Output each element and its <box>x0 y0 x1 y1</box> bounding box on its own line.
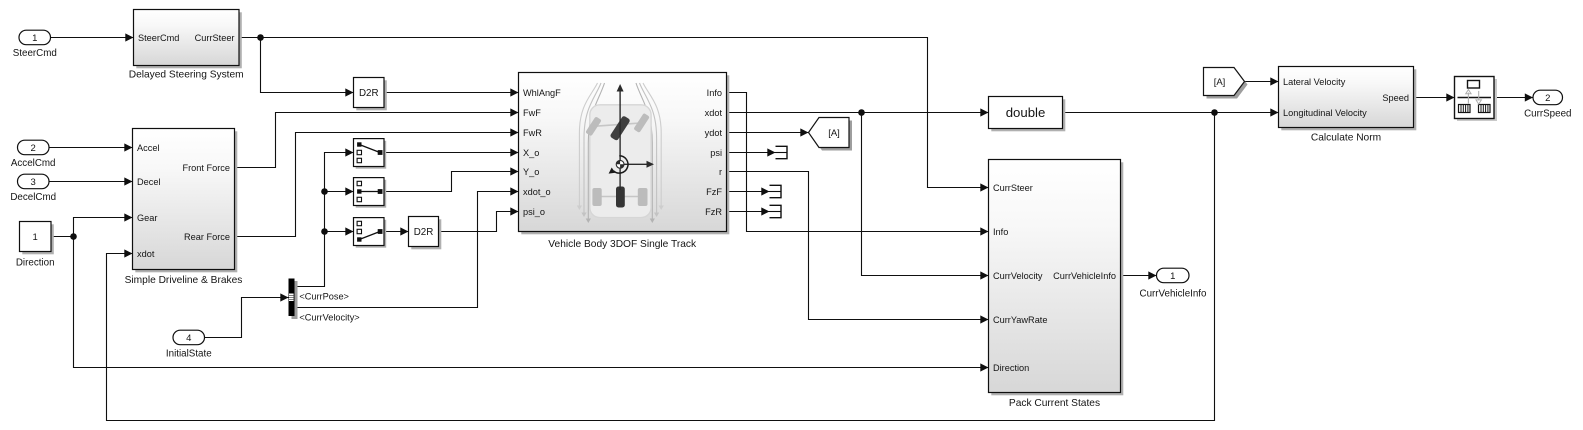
rate transition up arrow <box>1467 93 1469 104</box>
rate transition output register icon <box>1479 105 1491 113</box>
vehicle icon front left wheel <box>585 116 601 136</box>
svg-text:1: 1 <box>1170 271 1175 282</box>
svg-text:psi: psi <box>710 148 722 158</box>
wire Rate Transition to CurrSpeed outport <box>1494 97 1533 99</box>
svg-text:FwR: FwR <box>523 128 542 138</box>
wire D2R1 to WhlAngF <box>384 92 519 94</box>
svg-text:3: 3 <box>31 177 36 188</box>
wire double to Longitudinal Velocity <box>1063 112 1279 114</box>
constant block Direction value 1 <box>22 224 54 254</box>
svg-text:r: r <box>719 167 722 177</box>
wire Front Force to FwF <box>235 113 519 168</box>
terminator psi <box>776 146 788 158</box>
subsystem Simple Driveline & Brakes <box>135 131 237 272</box>
bus selector CurrPose CurrVelocity <box>292 281 298 319</box>
terminator FzF <box>770 185 782 197</box>
terminator FzR <box>770 205 782 217</box>
subsystem Calculate Norm <box>1281 69 1416 130</box>
junction double output to feedback <box>1211 109 1218 116</box>
junction CurrSteer branch <box>257 34 264 41</box>
junction xdot branch <box>858 109 865 116</box>
wire AccelCmd to Accel <box>49 147 133 149</box>
vehicle icon rear axle <box>595 196 645 198</box>
svg-text:AccelCmd: AccelCmd <box>11 158 56 169</box>
junction CurrPose to switch3 <box>321 228 328 235</box>
svg-text:FzF: FzF <box>706 187 722 197</box>
inport 3 DecelCmd <box>18 174 50 189</box>
svg-text:D2R: D2R <box>414 227 434 238</box>
svg-text:Longitudinal Velocity: Longitudinal Velocity <box>1283 108 1367 118</box>
rate transition down arrow <box>1478 91 1480 101</box>
wire DecelCmd to Decel <box>49 181 133 183</box>
wire SteerCmd to Delayed Steering System <box>51 37 134 39</box>
data type conversion double <box>991 99 1065 131</box>
svg-text:CurrVehicleInfo: CurrVehicleInfo <box>1140 289 1208 300</box>
svg-text:double: double <box>1006 105 1046 120</box>
wire xdot branch to Pack CurrVelocity <box>862 113 989 276</box>
svg-text:Info: Info <box>993 227 1008 237</box>
svg-text:4: 4 <box>186 333 191 344</box>
wire Manual Switch 3 to D2R2 <box>384 231 409 233</box>
wire CurrSteer branch to D2R1 <box>261 38 354 93</box>
goto tag A <box>812 121 853 151</box>
svg-text:Accel: Accel <box>137 143 159 153</box>
vehicle icon rear right wheel <box>638 188 648 206</box>
svg-text:InitialState: InitialState <box>166 349 212 360</box>
manual switch 3 psi_o <box>356 220 387 248</box>
svg-text:[A]: [A] <box>1214 77 1226 88</box>
svg-text:Pack Current States: Pack Current States <box>1009 398 1100 409</box>
svg-text:psi_o: psi_o <box>523 207 545 217</box>
vehicle icon front right wheel <box>633 113 649 133</box>
wire CurrPose to Manual Switch 2 <box>325 191 354 193</box>
svg-text:1: 1 <box>32 33 37 44</box>
vehicle icon yaw rotation arc <box>613 156 628 173</box>
wire From A to Lateral Velocity <box>1245 81 1279 83</box>
svg-text:<CurrPose>: <CurrPose> <box>299 292 349 302</box>
wire Direction to Gear <box>74 218 133 237</box>
svg-text:Delayed Steering System: Delayed Steering System <box>129 69 244 80</box>
vehicle body icon streamlines <box>579 83 597 206</box>
wire xdot feedback to Simple Driveline xdot <box>107 113 1215 421</box>
vehicle icon front center wheel steered <box>610 115 631 141</box>
junction Direction <box>70 233 77 240</box>
wire FzF to terminator <box>727 191 770 193</box>
vehicle body icon car outline <box>590 105 651 218</box>
inport 4 InitialState <box>173 330 205 345</box>
svg-text:CurrSteer: CurrSteer <box>993 183 1033 193</box>
gain block D2R2 degrees to radians <box>411 219 441 249</box>
gain block D2R1 degrees to radians <box>356 80 387 110</box>
svg-text:Gear: Gear <box>137 213 157 223</box>
svg-text:xdot: xdot <box>705 108 723 118</box>
wire CurrPose to Manual Switch 3 <box>325 231 354 233</box>
svg-text:D2R: D2R <box>359 88 379 99</box>
wire CurrSteer from Delayed Steering System to Pack Current States <box>239 38 989 188</box>
subsystem Pack Current States <box>991 162 1123 395</box>
svg-text:Lateral Velocity: Lateral Velocity <box>1283 77 1346 87</box>
svg-text:Simple Driveline & Brakes: Simple Driveline & Brakes <box>125 275 243 286</box>
wire CurrVehicleInfo to outport <box>1121 275 1157 277</box>
wire ydot to Goto A <box>727 132 809 134</box>
subsystem Delayed Steering System <box>136 12 242 68</box>
svg-text:[A]: [A] <box>828 128 840 139</box>
svg-text:Calculate Norm: Calculate Norm <box>1311 133 1381 144</box>
wire Direction constant output <box>51 236 74 238</box>
vehicle icon lateral axis arrow <box>620 163 648 165</box>
svg-text:Front Force: Front Force <box>183 163 230 173</box>
wire CurrPose to Manual Switch 1 <box>295 153 354 287</box>
svg-text:SteerCmd: SteerCmd <box>13 48 57 59</box>
wire InitialState to Bus Selector <box>205 298 289 338</box>
wire Manual Switch 1 to X_o <box>384 152 519 154</box>
svg-text:DecelCmd: DecelCmd <box>10 192 56 203</box>
svg-text:ydot: ydot <box>705 128 723 138</box>
wire Manual Switch 2 to Y_o <box>384 172 519 192</box>
wire psi to terminator <box>727 152 776 154</box>
manual switch 2 Y_o <box>356 180 387 208</box>
svg-text:Vehicle Body 3DOF Single Track: Vehicle Body 3DOF Single Track <box>548 239 697 250</box>
svg-text:CurrVelocity: CurrVelocity <box>993 271 1043 281</box>
from tag A <box>1207 71 1248 99</box>
svg-text:xdot: xdot <box>137 249 155 259</box>
svg-text:2: 2 <box>31 143 36 154</box>
svg-text:SteerCmd: SteerCmd <box>138 33 179 43</box>
svg-text:Info: Info <box>707 88 722 98</box>
subsystem Vehicle Body 3DOF Single Track <box>521 75 729 234</box>
outport 2 CurrSpeed <box>1533 90 1563 105</box>
inport 2 AccelCmd <box>18 140 50 155</box>
svg-text:WhlAngF: WhlAngF <box>523 88 561 98</box>
vehicle icon rear center wheel <box>616 187 625 208</box>
inport 1 SteerCmd <box>19 30 51 45</box>
wire D2R2 to psi_o <box>439 212 519 232</box>
rate transition buffer icon <box>1468 81 1480 89</box>
svg-text:<CurrVelocity>: <CurrVelocity> <box>299 313 359 323</box>
svg-text:CurrYawRate: CurrYawRate <box>993 315 1047 325</box>
svg-text:FzR: FzR <box>705 207 722 217</box>
outport 1 CurrVehicleInfo <box>1157 268 1190 283</box>
rate transition input register icon <box>1459 105 1471 113</box>
manual switch 1 X_o <box>356 141 387 169</box>
svg-text:FwF: FwF <box>523 108 541 118</box>
wire CurrVelocity to xdot_o <box>295 192 519 308</box>
svg-text:CurrSpeed: CurrSpeed <box>1524 108 1571 119</box>
svg-text:CurrSteer: CurrSteer <box>195 33 235 43</box>
wire r to Pack CurrYawRate <box>727 172 989 320</box>
junction CurrPose to switch2 <box>321 188 328 195</box>
svg-text:xdot_o: xdot_o <box>523 187 551 197</box>
wire xdot to double conversion <box>727 112 989 114</box>
svg-text:1: 1 <box>33 232 38 243</box>
wire Direction to Pack Current States Direction <box>74 237 989 368</box>
svg-text:Rear Force: Rear Force <box>184 232 230 242</box>
wire FzR to terminator <box>727 211 770 213</box>
svg-text:Speed: Speed <box>1382 93 1409 103</box>
wire Rear Force to FwR <box>235 133 519 237</box>
svg-text:Direction: Direction <box>993 363 1029 373</box>
svg-text:CurrVehicleInfo: CurrVehicleInfo <box>1053 271 1116 281</box>
svg-text:Decel: Decel <box>137 177 161 187</box>
vehicle icon rear left wheel <box>592 188 601 206</box>
wire Speed to Rate Transition <box>1414 97 1455 99</box>
wire Info to Pack Current States Info <box>727 93 989 232</box>
vehicle icon longitudinal axis arrow <box>619 90 621 190</box>
svg-text:X_o: X_o <box>523 148 539 158</box>
svg-text:2: 2 <box>1545 93 1550 104</box>
vehicle icon CG symbol <box>616 160 624 168</box>
vehicle icon front axle <box>594 123 642 126</box>
rate transition block <box>1457 79 1497 121</box>
svg-text:Direction: Direction <box>16 258 55 269</box>
svg-text:Y_o: Y_o <box>523 167 539 177</box>
